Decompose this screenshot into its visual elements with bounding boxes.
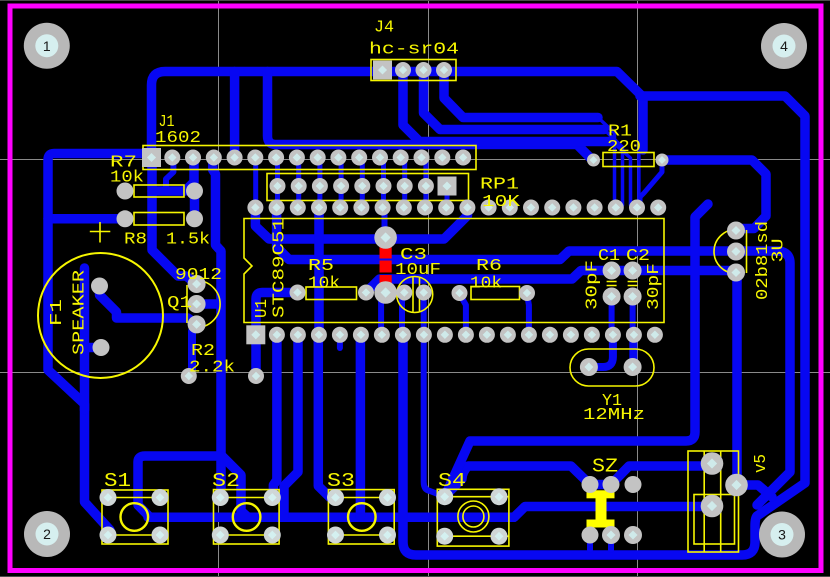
wire J4 pin2 fan	[403, 70, 612, 142]
wire U1 pin8 drop to S3 center	[356, 335, 366, 517]
svg-text:30pF: 30pF	[645, 263, 664, 310]
wire Q1 pin2 right and down through R2 to S2	[213, 158, 221, 496]
grid line vertical 2	[428, 0, 430, 577]
crystal Y1 pads	[580, 358, 642, 376]
capacitor C2 plates	[628, 282, 638, 286]
button S3 outline	[328, 490, 394, 544]
grid line horizontal 2	[0, 372, 830, 374]
svg-text:hc-sr04: hc-sr04	[369, 41, 459, 60]
svg-text:9012: 9012	[175, 266, 222, 285]
svg-text:R8: R8	[124, 231, 147, 250]
svg-text:12MHz: 12MHz	[583, 406, 645, 425]
connector J4 pads	[373, 61, 452, 80]
svg-text:U1: U1	[253, 299, 272, 318]
wire R5 pad2 run to U3 pin3	[366, 271, 736, 293]
resistor R5 pads	[290, 285, 375, 301]
wire U1 pin5 stub	[337, 335, 343, 348]
wire U1 pin4 drop to S3 pad	[318, 335, 335, 498]
connector 5v outline	[688, 451, 739, 552]
wire vertical to SZ rail corner	[445, 204, 708, 497]
svg-text:3: 3	[778, 527, 786, 543]
resistor R6 pads	[452, 285, 536, 301]
wire R6 pad stubs	[460, 294, 466, 334]
svg-text:v5: v5	[752, 454, 771, 473]
svg-text:SZ: SZ	[592, 456, 618, 478]
wire Q1 pin3 to R2 pad1	[189, 326, 196, 377]
resistor R2 pads	[181, 368, 264, 384]
ratsnest C3 red dashes	[380, 247, 392, 287]
svg-text:F1: F1	[48, 299, 67, 326]
svg-text:10k: 10k	[470, 275, 502, 294]
svg-text:2.2k: 2.2k	[189, 359, 235, 378]
svg-text:R5: R5	[308, 257, 334, 276]
svg-text:02b81sd: 02b81sd	[754, 221, 773, 300]
button S4 pads	[436, 488, 507, 545]
svg-text:10uF: 10uF	[395, 261, 441, 280]
svg-text:220: 220	[607, 138, 641, 157]
connector J1 pads	[142, 148, 471, 167]
wire SZ bottom stubs	[587, 535, 593, 550]
wire R1 pad2 to U3 pin1	[662, 160, 766, 229]
capacitor C3 via pads	[374, 226, 397, 304]
resistor network RP1 pads	[270, 177, 457, 196]
wire C1 C2 bottom stubs	[609, 297, 615, 335]
svg-text:S3: S3	[327, 470, 355, 492]
speaker F1 pads	[91, 278, 110, 357]
wire U3 pin3 down to 5v pin2	[732, 274, 742, 485]
svg-text:STC89C51: STC89C51	[271, 218, 290, 318]
wire U1 pin40 run across chip	[255, 208, 467, 239]
mounting hole 3	[759, 512, 805, 558]
svg-text:SPEAKER: SPEAKER	[71, 270, 90, 355]
wire R7 body run to J1 pin3	[152, 158, 194, 191]
wire R8 pad1 to left rail	[48, 214, 125, 224]
wire U1 pin2 drop to S2	[273, 335, 277, 498]
wire under R1 thin drop	[637, 152, 641, 205]
button S1 outline	[102, 490, 168, 544]
capacitor C2 pads	[624, 262, 642, 306]
resistor R8 body	[134, 213, 184, 226]
wire speaker pad2 stub	[85, 268, 102, 410]
resistor network RP1 outline	[267, 174, 469, 201]
svg-text:4: 4	[780, 38, 788, 54]
wire R7 pad2 to R8 pad2	[190, 191, 200, 219]
wire Q1 pin2 stub right	[197, 299, 218, 309]
wire C1 col to Y1 pad1	[589, 335, 613, 367]
resistor R7 pads	[117, 183, 204, 200]
svg-text:R6: R6	[476, 257, 502, 276]
capacitor C3 pads	[396, 285, 431, 301]
wire U1 pin37 to pin4 vertical	[314, 208, 324, 335]
capacitor C1 pads	[603, 262, 621, 306]
wire C3 via stub up	[382, 208, 388, 238]
svg-text:10k: 10k	[110, 169, 144, 188]
IC U1 socket outline	[244, 219, 664, 323]
mounting hole 4	[761, 23, 807, 69]
button S2 outline	[214, 490, 280, 544]
wire C3 via stub down	[381, 293, 386, 335]
wire button bus S1 to 5v pin3	[148, 507, 712, 518]
grid line horizontal 1	[0, 159, 830, 161]
wire C3 pad stubs down	[402, 294, 404, 335]
transistor Q1 pads	[188, 275, 206, 333]
wire J1 pad5 riser	[230, 72, 240, 159]
transistor U3 outline	[714, 230, 747, 274]
wire speaker pad1 to Q1 pin3	[100, 287, 197, 324]
wire upper rail to S1 and S2 centers	[138, 456, 248, 517]
resistor R8 pads	[117, 210, 204, 227]
resistor R1 body	[603, 153, 654, 167]
wire J4 pin3 fan	[424, 70, 605, 130]
wire top bus right segment down right edge to bottom bus	[403, 96, 805, 555]
IC U1 bottom row pads	[246, 325, 663, 344]
wire J1 pin2 stub to R7	[166, 158, 173, 186]
grid line vertical 3	[637, 0, 639, 577]
svg-text:1.5k: 1.5k	[166, 231, 210, 250]
wire U1 pin10 drop to S4 pad	[424, 335, 445, 497]
button S1 pads	[100, 489, 169, 544]
resistor R6 body	[471, 287, 520, 300]
wire U1 pin39 run to U3 pin1	[277, 208, 790, 505]
wire S4 run through SZ pads to 5v pin1	[447, 464, 712, 495]
button S4 outline	[437, 489, 509, 546]
wire R5 pad1 to U1 pin1	[256, 293, 298, 335]
connector 5v pads	[701, 452, 748, 517]
svg-text:S1: S1	[104, 470, 131, 492]
wire left rail J1 pin1 down to S1	[48, 154, 150, 531]
svg-text:1602: 1602	[155, 129, 201, 148]
wire R1 pad2 diagonal drop to U1 pin row	[640, 162, 662, 204]
wire J1 pin1 riser to top bus and drop to R1	[152, 72, 644, 159]
connector J4 outline	[371, 60, 456, 81]
capacitor C1 plates	[607, 282, 617, 286]
connector J1 outline	[143, 146, 476, 170]
resistor R5 body	[306, 287, 357, 300]
button S3 pads	[327, 489, 396, 544]
transistor U3 pads	[727, 222, 745, 282]
wire riser to J1 inner run to R1 pad1	[268, 72, 595, 160]
jumper SZ pads	[582, 476, 643, 544]
button S2 pads	[212, 489, 281, 544]
capacitor C3 outline	[397, 277, 433, 313]
jumper SZ I-bar	[587, 490, 615, 527]
transistor Q1 outline	[187, 281, 220, 328]
svg-text:S2: S2	[212, 470, 240, 492]
svg-text:J4: J4	[374, 19, 394, 38]
mounting hole 1	[24, 23, 70, 69]
svg-text:30pF: 30pF	[584, 260, 603, 310]
svg-text:10K: 10K	[482, 193, 521, 212]
crystal Y1 outline	[570, 349, 654, 386]
svg-text:10k: 10k	[308, 275, 340, 294]
wire U1 pin1 stub to R2 pad2	[251, 335, 261, 376]
wire J4 pin4 fan	[444, 70, 598, 118]
wire C2 col to Y1 pad2	[629, 335, 637, 367]
resistor R7 body	[134, 185, 184, 197]
resistor R1 pads	[587, 154, 669, 167]
grid line vertical 1	[218, 0, 220, 577]
mounting hole 2	[24, 511, 70, 557]
svg-text:Q1: Q1	[167, 294, 192, 313]
wire 5v pin2 stub to corner trace	[737, 485, 773, 497]
svg-text:RP1: RP1	[480, 176, 519, 195]
origin marker cross	[90, 222, 111, 243]
speaker F1 outline	[38, 253, 163, 378]
svg-text:1: 1	[43, 38, 51, 54]
wire socket ladder RP1 to U1	[256, 158, 447, 208]
svg-text:2: 2	[43, 526, 51, 542]
wire U1 pin3 drop to bus	[284, 335, 298, 517]
IC U1 top row pads	[247, 200, 666, 216]
wire J1 pin1 descender to Q1 pin1	[152, 166, 197, 284]
svg-text:S4: S4	[438, 470, 466, 492]
